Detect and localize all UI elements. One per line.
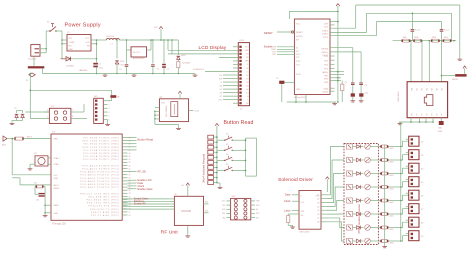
svg-text:L4005: L4005 <box>389 175 394 177</box>
svg-text:L4005: L4005 <box>389 243 394 245</box>
svg-text:1: 1 <box>109 101 110 103</box>
svg-text:PCO-ADC2 PCINT10 (PC2): PCO-ADC2 PCINT10 (PC2) <box>80 171 119 174</box>
svg-text:L4005: L4005 <box>389 202 394 204</box>
svg-text:TD5: TD5 <box>436 88 438 91</box>
svg-text:NC2: NC2 <box>256 213 259 215</box>
svg-text:Q1: Q1 <box>317 195 319 197</box>
svg-text:L4941BV: L4941BV <box>182 63 191 65</box>
svg-text:43: 43 <box>129 162 131 164</box>
svg-text:TD1: TD1 <box>416 88 418 91</box>
svg-text:D0: D0 <box>246 68 248 70</box>
svg-text:74HC4094: 74HC4094 <box>299 231 310 233</box>
svg-text:PD7-T2 AIN1 (PD7): PD7-T2 AIN1 (PD7) <box>91 214 120 217</box>
svg-text:PCO-ADC4 PCINT12 (PC4): PCO-ADC4 PCINT12 (PC4) <box>80 177 119 180</box>
svg-text:SEL: SEL <box>222 213 225 215</box>
svg-text:VCC: VCC <box>296 24 301 26</box>
svg-text:S5: S5 <box>226 164 228 166</box>
svg-text:GND: GND <box>438 128 443 130</box>
svg-text:PCI-OC0A PCINT4 (PB4): PCI-OC0A PCINT4 (PB4) <box>83 149 119 152</box>
svg-text:TD2: TD2 <box>421 88 423 91</box>
svg-text:3Kx4 Isolated Keypad: 3Kx4 Isolated Keypad <box>202 153 206 183</box>
svg-text:D7: D7 <box>220 96 222 98</box>
svg-text:RESET: RESET <box>264 31 273 35</box>
svg-text:PD5-XCK1 T0 (PD5): PD5-XCK1 T0 (PD5) <box>90 209 119 211</box>
svg-text:D4: D4 <box>246 82 248 84</box>
svg-text:FB2022: FB2022 <box>452 79 458 81</box>
svg-text:BZV: BZV <box>120 61 125 63</box>
svg-text:PCI-OC0B PCINT5 (PB5): PCI-OC0B PCINT5 (PB5) <box>83 153 119 155</box>
svg-text:D1: D1 <box>246 71 248 73</box>
svg-text:LDR: LDR <box>324 24 329 26</box>
svg-text:D6: D6 <box>220 92 222 94</box>
svg-text:D5: D5 <box>220 89 222 91</box>
svg-text:34: 34 <box>129 190 131 192</box>
svg-text:RFM12B: RFM12B <box>182 210 192 213</box>
svg-text:PDO-TXD1 PCINT3 (PB3): PDO-TXD1 PCINT3 (PB3) <box>82 147 119 149</box>
svg-text:GND: GND <box>54 178 59 180</box>
svg-text:49R9: 49R9 <box>432 37 436 39</box>
svg-text:XTAL2: XTAL2 <box>322 33 329 36</box>
svg-text:44: 44 <box>129 159 131 161</box>
svg-text:TD0: TD0 <box>411 88 413 91</box>
svg-text:Data: Data <box>285 193 291 197</box>
svg-text:XTAL1: XTAL1 <box>322 30 329 33</box>
svg-text:AREF: AREF <box>54 204 60 207</box>
svg-text:A1: A1 <box>182 184 184 187</box>
svg-text:DCJ0202: DCJ0202 <box>28 58 37 60</box>
svg-text:PD2-RXD1 INT2 (PD2): PD2-RXD1 INT2 (PD2) <box>87 200 120 202</box>
svg-text:3: 3 <box>109 108 110 110</box>
svg-text:Solenoid Driver: Solenoid Driver <box>278 177 313 183</box>
svg-text:D2: D2 <box>246 75 248 77</box>
svg-text:32: 32 <box>129 196 131 198</box>
svg-text:49R9: 49R9 <box>402 37 406 39</box>
svg-text:Enable Valve: Enable Valve <box>138 187 154 191</box>
svg-text:AVCC: AVCC <box>54 184 60 187</box>
svg-text:39: 39 <box>129 175 131 177</box>
svg-text:Q3: Q3 <box>317 202 319 204</box>
svg-text:5: 5 <box>109 116 110 118</box>
svg-text:Button Read: Button Read <box>138 137 154 141</box>
svg-text:100u: 100u <box>99 68 103 70</box>
svg-text:PCO-ADC6 PCINT14 (PC6): PCO-ADC6 PCINT14 (PC6) <box>80 183 119 186</box>
svg-text:S4: S4 <box>226 154 228 156</box>
svg-text:RF_SE: RF_SE <box>138 170 147 174</box>
svg-text:(USO): (USO) <box>322 92 328 94</box>
svg-text:QG2 16MHz: QG2 16MHz <box>166 105 168 117</box>
svg-text:Power Supply: Power Supply <box>65 22 101 28</box>
svg-text:PCO-ADC5 PCINT13 (PC5): PCO-ADC5 PCINT13 (PC5) <box>80 180 119 183</box>
svg-text:TD4: TD4 <box>431 88 433 91</box>
svg-text:P0: P0 <box>411 113 413 115</box>
svg-text:P2: P2 <box>421 113 423 115</box>
svg-text:PCO-ADC0 PCINT8 (PC0): PCO-ADC0 PCINT8 (PC0) <box>82 164 119 167</box>
svg-text:ANT-1: ANT-1 <box>27 135 32 138</box>
svg-text:GND: GND <box>296 89 301 91</box>
svg-text:42: 42 <box>129 165 131 167</box>
svg-text:D4: D4 <box>220 85 222 87</box>
svg-text:AGND: AGND <box>54 187 60 190</box>
svg-text:LAB/GND: LAB/GND <box>79 69 88 72</box>
svg-text:L4005: L4005 <box>389 162 394 164</box>
svg-text:PDO-TXD0 PCINT1 (PB1): PDO-TXD0 PCINT1 (PB1) <box>82 141 119 143</box>
svg-text:P5: P5 <box>436 113 438 115</box>
svg-text:GND: GND <box>54 213 59 215</box>
svg-text:(MISO): (MISO) <box>322 52 329 54</box>
svg-text:(USI): (USI) <box>323 88 328 90</box>
svg-text:27: 27 <box>129 212 131 214</box>
svg-text:IN OUT: IN OUT <box>133 52 141 54</box>
svg-text:RESET: RESET <box>296 32 303 34</box>
svg-text:Q4: Q4 <box>317 206 319 208</box>
svg-text:D3: D3 <box>246 78 248 80</box>
svg-text:46: 46 <box>129 153 131 155</box>
svg-text:PD6-T1 AIN0 (PD6): PD6-T1 AIN0 (PD6) <box>91 211 120 214</box>
svg-text:PCI-OC1B PCINT7 (PB7): PCI-OC1B PCINT7 (PB7) <box>83 159 119 161</box>
svg-text:ST4094 LD: ST4094 LD <box>193 69 204 71</box>
svg-text:49R9: 49R9 <box>444 37 448 39</box>
svg-text:CLK0: CLK0 <box>195 111 200 113</box>
svg-text:RW: RW <box>219 78 222 80</box>
svg-text:XTAL2: XTAL2 <box>54 157 61 160</box>
svg-text:38: 38 <box>129 178 131 180</box>
svg-text:D5: D5 <box>246 85 248 87</box>
svg-text:R6: R6 <box>117 97 119 99</box>
svg-text:LCD1: LCD1 <box>239 40 245 42</box>
svg-text:33: 33 <box>129 193 131 195</box>
svg-text:VCC: VCC <box>154 27 159 29</box>
svg-text:Q7: Q7 <box>317 218 319 220</box>
svg-text:Q8: Q8 <box>317 222 319 224</box>
svg-text:MAGJACK: MAGJACK <box>397 91 400 102</box>
svg-text:37: 37 <box>129 181 131 183</box>
svg-text:ACE/78L05Z: ACE/78L05Z <box>133 57 145 60</box>
svg-text:P4: P4 <box>431 113 433 115</box>
svg-text:LDG: LDG <box>324 27 329 29</box>
svg-text:Enable RF: Enable RF <box>134 202 146 205</box>
svg-text:GND: GND <box>69 49 74 51</box>
svg-text:PD0-SCL CLK0 INT0 (PD0): PD0-SCL CLK0 INT0 (PD0) <box>80 193 119 195</box>
svg-text:XCK2: XCK2 <box>323 37 329 39</box>
svg-text:4: 4 <box>109 112 110 114</box>
svg-text:R_Lx2: R_Lx2 <box>444 30 449 32</box>
svg-text:Latch: Latch <box>284 208 291 212</box>
svg-text:PDI-RXD0 PCINT0 (PB0): PDI-RXD0 PCINT0 (PB0) <box>83 138 119 140</box>
svg-text:PCO-ADC3 PCINT11 (PC3): PCO-ADC3 PCINT11 (PC3) <box>81 174 120 177</box>
svg-text:SEL: SEL <box>205 210 208 212</box>
svg-text:L4005: L4005 <box>389 216 394 218</box>
svg-text:VCC: VCC <box>85 38 90 40</box>
svg-text:6: 6 <box>109 119 110 121</box>
svg-text:LED1: LED1 <box>181 55 186 57</box>
svg-text:VCC: VCC <box>54 175 59 177</box>
svg-text:(UCNT): (UCNT) <box>296 36 303 38</box>
svg-text:LCD Display: LCD Display <box>199 45 227 51</box>
svg-text:49R9: 49R9 <box>414 37 418 39</box>
svg-text:45: 45 <box>129 156 131 158</box>
svg-text:D6: D6 <box>246 89 248 91</box>
svg-text:XTAL1: XTAL1 <box>54 163 61 166</box>
svg-text:R/W: R/W <box>245 61 249 63</box>
svg-text:470x4 Isolated Toaster: 470x4 Isolated Toaster <box>357 204 361 234</box>
svg-text:S3: S3 <box>226 144 228 146</box>
svg-text:SCK: SCK <box>296 54 301 56</box>
svg-text:26: 26 <box>129 215 131 217</box>
svg-text:COMP: COMP <box>69 42 76 44</box>
svg-text:P3: P3 <box>426 113 428 115</box>
svg-text:RF Unit: RF Unit <box>161 230 179 236</box>
svg-text:L4005: L4005 <box>389 229 394 231</box>
svg-text:P6: P6 <box>441 113 443 115</box>
svg-text:(AIN0): (AIN0) <box>322 71 328 74</box>
svg-text:Q5: Q5 <box>317 210 319 212</box>
svg-text:PCO-ADC1 PCINT9 (PC1): PCO-ADC1 PCINT9 (PC1) <box>82 168 119 171</box>
svg-text:2: 2 <box>109 104 110 106</box>
svg-text:TD6: TD6 <box>441 88 443 91</box>
svg-text:R_Lx2: R_Lx2 <box>415 30 420 32</box>
svg-text:TD3: TD3 <box>426 88 428 91</box>
svg-text:Q6: Q6 <box>317 214 319 216</box>
svg-text:P1: P1 <box>416 113 418 115</box>
svg-text:C11: C11 <box>36 200 39 202</box>
svg-text:INT: INT <box>256 217 259 219</box>
svg-text:41: 41 <box>129 168 131 170</box>
svg-text:DO: DO <box>296 51 299 53</box>
svg-text:Q2: Q2 <box>317 199 319 201</box>
svg-text:D7: D7 <box>246 92 248 94</box>
svg-text:PDI-RXD1 PCINT2 (PB2): PDI-RXD1 PCINT2 (PB2) <box>83 144 119 146</box>
svg-text:OSC: OSC <box>161 103 166 105</box>
svg-text:PD1-SDA INT1 (PD1): PD1-SDA INT1 (PD1) <box>89 195 120 198</box>
svg-text:PD3-TXD1 INT3 (PD3): PD3-TXD1 INT3 (PD3) <box>87 203 120 205</box>
svg-text:SCM: SCM <box>296 74 301 76</box>
svg-text:Clock: Clock <box>284 199 291 203</box>
svg-text:S2: S2 <box>226 134 228 136</box>
svg-text:ATmega 128: ATmega 128 <box>52 222 66 225</box>
svg-text:L4005: L4005 <box>389 148 394 150</box>
svg-text:Button Read: Button Read <box>224 120 254 126</box>
svg-text:PD4-ICP1 XCK (PD4): PD4-ICP1 XCK (PD4) <box>88 206 119 208</box>
svg-text:PEN: PEN <box>54 139 59 141</box>
svg-text:L4005: L4005 <box>389 189 394 191</box>
svg-text:PCI-OC1A PCINT6 (PB6): PCI-OC1A PCINT6 (PB6) <box>83 155 119 158</box>
svg-text:PCO-ADC7 PCINT15 (PC7): PCO-ADC7 PCINT15 (PC7) <box>80 186 119 189</box>
svg-text:L2201.01: L2201.01 <box>106 36 115 38</box>
svg-text:(MOSI): (MOSI) <box>322 49 329 51</box>
svg-text:L4960BL: L4960BL <box>66 65 75 67</box>
